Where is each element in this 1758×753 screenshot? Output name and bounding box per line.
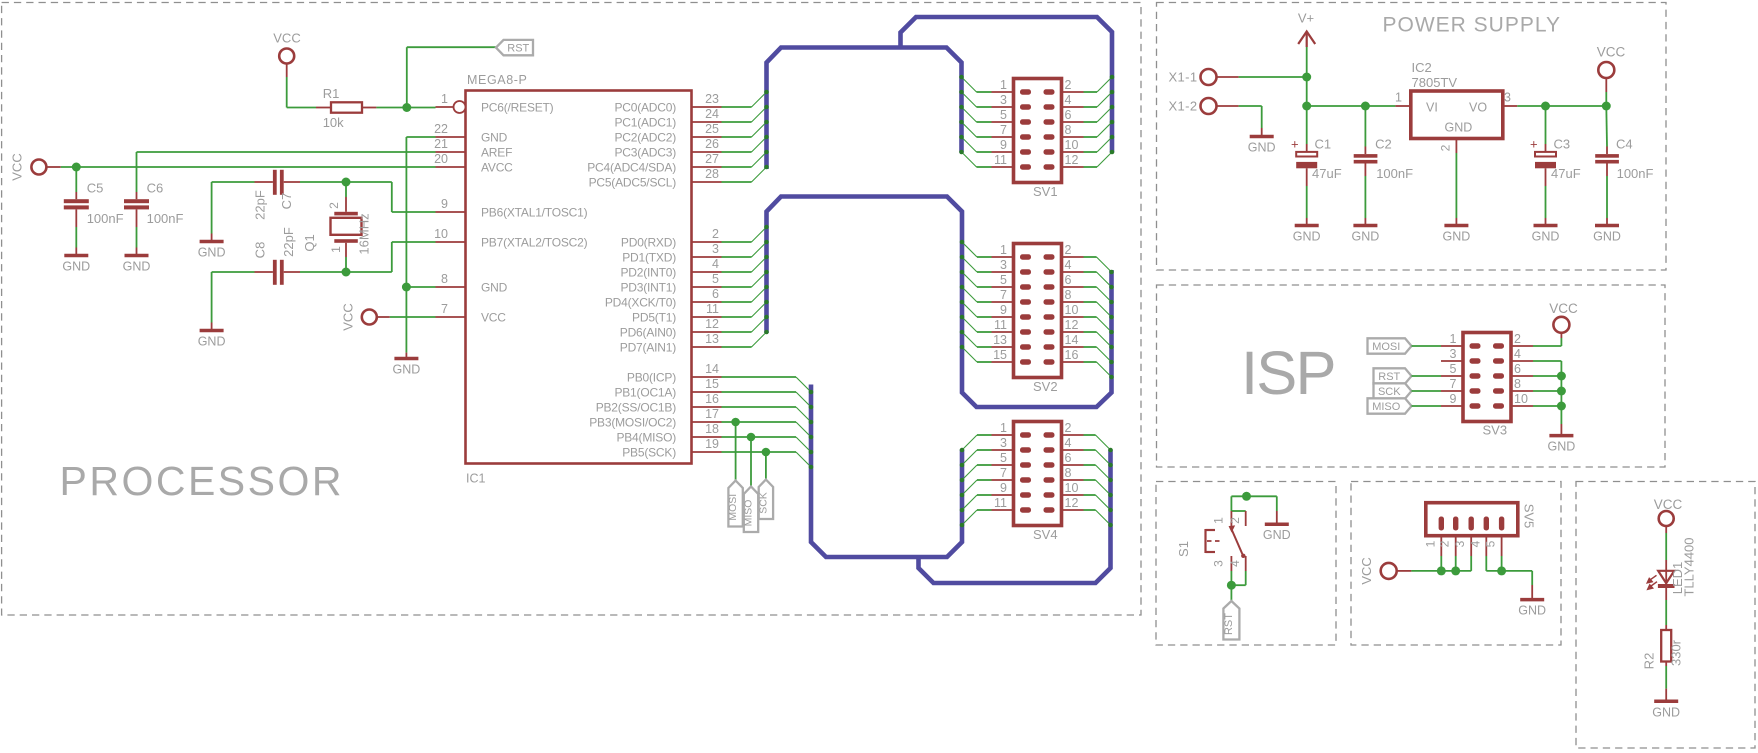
svg-text:7: 7	[1000, 123, 1007, 137]
svg-text:SCK: SCK	[1378, 386, 1401, 398]
svg-text:16MHz: 16MHz	[357, 213, 372, 254]
svg-text:VCC: VCC	[1597, 45, 1626, 60]
svg-text:PB4(MISO): PB4(MISO)	[616, 431, 676, 445]
svg-text:VO: VO	[1469, 101, 1487, 115]
svg-text:14: 14	[1065, 333, 1079, 347]
svg-text:11: 11	[706, 302, 719, 316]
svg-text:R1: R1	[323, 86, 340, 101]
svg-text:MOSI: MOSI	[1372, 341, 1400, 353]
svg-text:14: 14	[705, 362, 719, 376]
svg-text:7: 7	[1000, 288, 1007, 302]
svg-text:10: 10	[1065, 481, 1079, 495]
svg-text:MISO: MISO	[1372, 401, 1401, 413]
svg-text:12: 12	[1065, 153, 1079, 167]
svg-text:Q1: Q1	[302, 234, 317, 251]
svg-text:MOSI: MOSI	[727, 494, 739, 521]
svg-text:10: 10	[434, 227, 448, 241]
svg-text:11: 11	[994, 496, 1007, 510]
svg-text:2: 2	[1065, 78, 1072, 92]
svg-text:RST: RST	[1378, 371, 1400, 383]
svg-text:7: 7	[441, 302, 448, 316]
svg-text:1: 1	[1212, 517, 1226, 524]
svg-text:11: 11	[994, 318, 1007, 332]
svg-text:9: 9	[441, 197, 448, 211]
svg-text:8: 8	[1065, 288, 1072, 302]
svg-text:C8: C8	[253, 242, 268, 259]
svg-text:7: 7	[1450, 377, 1457, 391]
svg-text:4: 4	[1514, 347, 1521, 361]
svg-text:VCC: VCC	[1549, 301, 1578, 316]
svg-text:20: 20	[434, 152, 448, 166]
svg-text:6: 6	[712, 287, 719, 301]
svg-text:GND: GND	[198, 246, 226, 260]
svg-text:3: 3	[1504, 91, 1511, 105]
svg-text:18: 18	[705, 422, 719, 436]
svg-text:2: 2	[327, 202, 341, 209]
svg-text:SCK: SCK	[757, 492, 769, 514]
svg-text:5: 5	[1000, 273, 1007, 287]
svg-text:10: 10	[1065, 303, 1079, 317]
svg-text:C1: C1	[1315, 137, 1332, 152]
svg-text:PD1(TXD): PD1(TXD)	[622, 251, 676, 265]
svg-text:8: 8	[1065, 466, 1072, 480]
svg-text:15: 15	[993, 348, 1007, 362]
svg-text:47uF: 47uF	[1551, 166, 1581, 181]
svg-text:ISP: ISP	[1241, 339, 1335, 408]
svg-text:4: 4	[712, 257, 719, 271]
svg-text:C5: C5	[87, 181, 104, 196]
svg-text:13: 13	[993, 333, 1007, 347]
svg-text:GND: GND	[1352, 230, 1380, 244]
svg-text:PB2(SS/OC1B): PB2(SS/OC1B)	[596, 401, 676, 415]
svg-text:4: 4	[1065, 436, 1072, 450]
svg-text:MEGA8-P: MEGA8-P	[467, 73, 527, 87]
svg-text:SV4: SV4	[1033, 527, 1058, 542]
svg-text:GND: GND	[198, 335, 226, 349]
svg-text:GND: GND	[481, 131, 508, 145]
svg-text:22pF: 22pF	[253, 190, 268, 220]
svg-text:PD3(INT1): PD3(INT1)	[620, 281, 676, 295]
svg-text:PB3(MOSI/OC2): PB3(MOSI/OC2)	[589, 416, 676, 430]
svg-text:100nF: 100nF	[1376, 166, 1413, 181]
svg-text:1: 1	[1000, 421, 1007, 435]
svg-text:VI: VI	[1426, 101, 1438, 115]
svg-text:3: 3	[1000, 93, 1007, 107]
svg-text:2: 2	[1065, 243, 1072, 257]
svg-text:2: 2	[1065, 421, 1072, 435]
svg-text:PC5(ADC5/SCL): PC5(ADC5/SCL)	[589, 176, 677, 190]
svg-text:V+: V+	[1298, 11, 1314, 26]
svg-text:AREF: AREF	[481, 146, 512, 160]
svg-text:9: 9	[1000, 303, 1007, 317]
svg-text:PD4(XCK/T0): PD4(XCK/T0)	[605, 296, 676, 310]
svg-text:GND: GND	[123, 260, 151, 274]
svg-text:PD7(AIN1): PD7(AIN1)	[620, 341, 676, 355]
svg-text:7: 7	[1000, 466, 1007, 480]
svg-text:100nF: 100nF	[1617, 166, 1654, 181]
svg-text:4: 4	[1065, 258, 1072, 272]
svg-text:GND: GND	[1445, 121, 1473, 135]
svg-text:GND: GND	[1652, 705, 1680, 719]
svg-text:5: 5	[1484, 540, 1498, 547]
svg-text:1: 1	[1423, 540, 1437, 547]
svg-text:GND: GND	[62, 260, 90, 274]
svg-text:3: 3	[1450, 347, 1457, 361]
svg-text:R2: R2	[1642, 653, 1657, 670]
svg-text:AVCC: AVCC	[481, 161, 513, 175]
svg-text:GND: GND	[1532, 230, 1560, 244]
svg-text:28: 28	[705, 167, 719, 181]
svg-text:1: 1	[441, 92, 448, 106]
svg-text:9: 9	[1000, 138, 1007, 152]
svg-text:24: 24	[705, 107, 719, 121]
svg-text:RST: RST	[1223, 613, 1235, 635]
svg-text:+: +	[1291, 137, 1299, 152]
svg-text:8: 8	[1514, 377, 1521, 391]
svg-text:26: 26	[705, 137, 719, 151]
svg-text:PB6(XTAL1/TOSC1): PB6(XTAL1/TOSC1)	[481, 206, 588, 220]
svg-text:IC2: IC2	[1412, 60, 1432, 75]
svg-text:15: 15	[705, 377, 719, 391]
svg-text:SV1: SV1	[1033, 184, 1058, 199]
svg-text:1: 1	[1000, 243, 1007, 257]
svg-text:PC0(ADC0): PC0(ADC0)	[614, 101, 676, 115]
svg-text:PC1(ADC1): PC1(ADC1)	[614, 116, 676, 130]
svg-text:19: 19	[705, 437, 719, 451]
svg-text:6: 6	[1065, 273, 1072, 287]
svg-text:GND: GND	[1548, 440, 1576, 454]
svg-text:3: 3	[1212, 560, 1226, 567]
svg-text:1: 1	[1450, 332, 1457, 346]
svg-text:SV3: SV3	[1483, 423, 1508, 438]
svg-text:1: 1	[1395, 91, 1402, 105]
svg-text:22pF: 22pF	[281, 227, 296, 257]
svg-text:3: 3	[1000, 258, 1007, 272]
svg-text:10: 10	[1065, 138, 1079, 152]
svg-text:MISO: MISO	[743, 500, 755, 527]
svg-text:16: 16	[1065, 348, 1079, 362]
svg-text:RST: RST	[507, 43, 529, 55]
svg-text:GND: GND	[1593, 230, 1621, 244]
svg-text:PC2(ADC2): PC2(ADC2)	[614, 131, 676, 145]
svg-text:PB1(OC1A): PB1(OC1A)	[614, 386, 676, 400]
svg-text:12: 12	[705, 317, 719, 331]
svg-text:100nF: 100nF	[87, 211, 124, 226]
svg-text:2: 2	[712, 227, 719, 241]
svg-text:2: 2	[1514, 332, 1521, 346]
svg-text:16: 16	[705, 392, 719, 406]
svg-text:330r: 330r	[1669, 639, 1684, 666]
svg-text:12: 12	[1065, 318, 1079, 332]
svg-text:X1-2: X1-2	[1168, 99, 1197, 114]
svg-text:+: +	[1530, 137, 1538, 152]
svg-text:5: 5	[1000, 451, 1007, 465]
svg-text:VCC: VCC	[1654, 497, 1683, 512]
svg-text:C7: C7	[279, 193, 294, 210]
svg-text:VCC: VCC	[1359, 557, 1374, 584]
svg-text:PD6(AIN0): PD6(AIN0)	[620, 326, 676, 340]
svg-text:2: 2	[1438, 540, 1452, 547]
svg-text:GND: GND	[481, 281, 508, 295]
svg-text:PD2(INT0): PD2(INT0)	[620, 266, 676, 280]
svg-text:VCC: VCC	[341, 303, 356, 330]
svg-text:C6: C6	[147, 181, 164, 196]
svg-text:47uF: 47uF	[1312, 166, 1342, 181]
svg-text:GND: GND	[1518, 604, 1546, 618]
svg-text:10: 10	[1514, 392, 1528, 406]
svg-text:GND: GND	[1263, 528, 1291, 542]
svg-text:1: 1	[1000, 78, 1007, 92]
svg-text:21: 21	[434, 137, 448, 151]
svg-text:10k: 10k	[323, 115, 344, 130]
svg-text:9: 9	[1000, 481, 1007, 495]
svg-text:PB5(SCK): PB5(SCK)	[622, 446, 676, 460]
svg-text:12: 12	[1065, 496, 1079, 510]
svg-text:GND: GND	[1248, 141, 1276, 155]
svg-text:IC1: IC1	[466, 472, 486, 486]
svg-text:PC6(/RESET): PC6(/RESET)	[481, 101, 554, 115]
svg-text:PD5(T1): PD5(T1)	[632, 311, 676, 325]
svg-text:25: 25	[705, 122, 719, 136]
svg-text:7805TV: 7805TV	[1412, 75, 1458, 90]
svg-text:4: 4	[1228, 560, 1242, 567]
svg-text:PB7(XTAL2/TOSC2): PB7(XTAL2/TOSC2)	[481, 236, 588, 250]
svg-text:5: 5	[1000, 108, 1007, 122]
svg-text:PB0(ICP): PB0(ICP)	[627, 371, 676, 385]
svg-text:C2: C2	[1375, 137, 1392, 152]
svg-text:S1: S1	[1176, 541, 1191, 557]
svg-text:PROCESSOR: PROCESSOR	[60, 458, 345, 504]
svg-text:C3: C3	[1554, 137, 1571, 152]
svg-text:22: 22	[434, 122, 448, 136]
svg-text:23: 23	[705, 92, 719, 106]
svg-text:8: 8	[441, 272, 448, 286]
svg-text:TLLY4400: TLLY4400	[1682, 537, 1697, 596]
svg-text:3: 3	[1000, 436, 1007, 450]
svg-text:2: 2	[1439, 144, 1453, 151]
svg-text:X1-1: X1-1	[1168, 70, 1197, 85]
svg-text:13: 13	[705, 332, 719, 346]
svg-text:VCC: VCC	[10, 153, 25, 180]
svg-text:4: 4	[1468, 540, 1482, 547]
svg-text:VCC: VCC	[273, 31, 300, 46]
svg-text:17: 17	[705, 407, 719, 421]
svg-text:C4: C4	[1616, 137, 1633, 152]
svg-text:5: 5	[1450, 362, 1457, 376]
svg-text:POWER SUPPLY: POWER SUPPLY	[1383, 14, 1561, 37]
svg-text:VCC: VCC	[481, 311, 506, 325]
svg-text:6: 6	[1065, 451, 1072, 465]
svg-text:1: 1	[329, 246, 343, 253]
svg-text:3: 3	[712, 242, 719, 256]
svg-text:GND: GND	[1293, 230, 1321, 244]
svg-text:100nF: 100nF	[147, 211, 184, 226]
svg-text:GND: GND	[1443, 230, 1471, 244]
svg-text:6: 6	[1065, 108, 1072, 122]
svg-text:3: 3	[1453, 540, 1467, 547]
svg-text:27: 27	[705, 152, 719, 166]
svg-text:9: 9	[1450, 392, 1457, 406]
svg-text:5: 5	[712, 272, 719, 286]
svg-text:8: 8	[1065, 123, 1072, 137]
svg-text:SV5: SV5	[1522, 504, 1537, 529]
svg-text:11: 11	[994, 153, 1007, 167]
svg-text:6: 6	[1514, 362, 1521, 376]
svg-text:PD0(RXD): PD0(RXD)	[621, 236, 676, 250]
svg-text:PC4(ADC4/SDA): PC4(ADC4/SDA)	[587, 161, 676, 175]
svg-text:GND: GND	[393, 363, 421, 377]
svg-text:PC3(ADC3): PC3(ADC3)	[614, 146, 676, 160]
svg-text:4: 4	[1065, 93, 1072, 107]
svg-text:2: 2	[1228, 517, 1242, 524]
svg-text:SV2: SV2	[1033, 379, 1058, 394]
